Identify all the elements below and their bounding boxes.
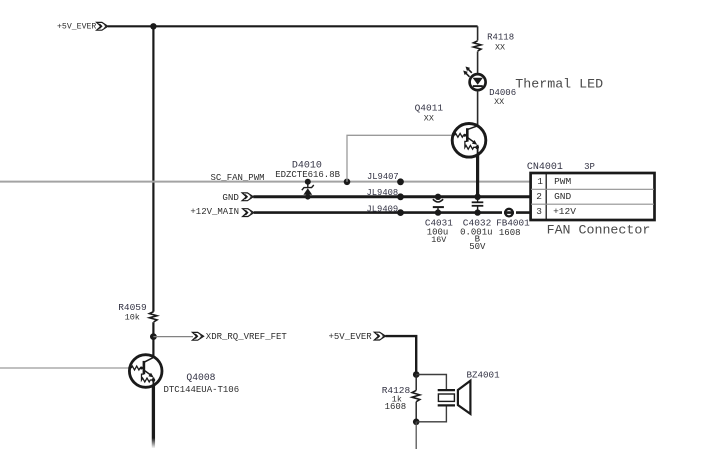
svg-text:1608: 1608 — [385, 402, 407, 412]
wire to buzzer bottom lead — [416, 405, 446, 421]
wire R4118 branch top — [477, 26, 479, 40]
transistor Q4011 — [452, 124, 486, 158]
svg-text:50V: 50V — [469, 242, 486, 252]
off-page connector arrow GND — [242, 193, 253, 201]
svg-text:1608: 1608 — [499, 228, 521, 238]
wire resistor to LED — [477, 51, 479, 74]
svg-text:CN4001: CN4001 — [527, 162, 563, 173]
wire GND net thick — [253, 195, 530, 198]
svg-text:XX: XX — [424, 113, 434, 123]
junction buzzer top — [413, 371, 420, 378]
off-page connector arrow (+5V_EVER bottom) — [374, 332, 385, 340]
off-page connector arrow XDR — [192, 332, 203, 340]
LED D4006 — [463, 67, 485, 91]
svg-text:16V: 16V — [431, 235, 446, 245]
wire resistor to junction — [152, 322, 154, 357]
junction JL9409 — [397, 209, 404, 216]
svg-text:+5V_EVER: +5V_EVER — [57, 23, 96, 32]
connector CN4001 box — [531, 173, 655, 220]
wire Q4011 emitter thick to GND net — [476, 155, 479, 197]
wire gray base line to Q4008 — [0, 367, 130, 369]
svg-text:R4059: R4059 — [118, 302, 147, 313]
wire +12V_MAIN net — [254, 211, 531, 214]
svg-text:+5V_EVER: +5V_EVER — [329, 332, 373, 342]
junction node XDR tap — [150, 333, 157, 340]
zener diode D4010 — [302, 179, 314, 200]
svg-text:JL9407: JL9407 — [367, 172, 399, 182]
svg-text:R4118: R4118 — [487, 33, 514, 43]
svg-text:DTC144EUA-T106: DTC144EUA-T106 — [164, 385, 240, 395]
svg-text:GND: GND — [222, 192, 239, 203]
svg-text:FAN Connector: FAN Connector — [547, 223, 651, 238]
wire +5V_EVER rail horizontal — [108, 25, 478, 27]
wire bottom to edge — [415, 422, 417, 449]
wire to buzzer top lead — [416, 375, 446, 391]
svg-text:JL9408: JL9408 — [367, 188, 399, 198]
wire to XDR_RQ_VREF_FET arrow — [153, 336, 193, 338]
wire vertical left rail to Q4008 — [152, 26, 154, 311]
junction JL9407 — [397, 178, 404, 185]
svg-text:PWM: PWM — [554, 176, 571, 187]
wire +5V_EVER to buzzer branch — [386, 336, 417, 374]
wire R4128 to bottom junction — [415, 402, 417, 422]
svg-text:EDZCTE616.8B: EDZCTE616.8B — [275, 170, 340, 180]
svg-text:BZ4001: BZ4001 — [467, 369, 501, 380]
wire Q4011 base (gray, up and right) — [347, 135, 452, 182]
svg-text:GND: GND — [554, 191, 571, 202]
wire LED to Q4011 collector — [477, 90, 479, 126]
buzzer BZ4001 — [438, 381, 471, 414]
svg-text:+12V_MAIN: +12V_MAIN — [190, 207, 239, 217]
svg-text:10k: 10k — [125, 313, 140, 323]
capacitor C4032 — [472, 194, 484, 216]
junction on SC_FAN_PWM for Q4011 base — [344, 179, 351, 186]
resistor R4059 — [149, 312, 157, 322]
svg-text:XX: XX — [494, 97, 504, 107]
svg-text:+12V: +12V — [553, 206, 576, 217]
ferrite bead FB4001 — [502, 209, 516, 217]
off-page connector arrow (+5V_EVER top) — [97, 22, 108, 30]
svg-text:Q4011: Q4011 — [415, 103, 444, 114]
transistor Q4008 — [129, 355, 162, 388]
svg-text:3P: 3P — [584, 162, 595, 172]
wire Q4008 emitter thick to bottom edge — [152, 385, 155, 448]
resistor R4128 — [412, 390, 420, 401]
svg-text:XDR_RQ_VREF_FET: XDR_RQ_VREF_FET — [206, 332, 288, 342]
svg-text:2: 2 — [536, 191, 542, 202]
svg-text:XX: XX — [495, 43, 505, 53]
junction JL9408 — [397, 193, 404, 200]
wire junction to R4128 — [415, 375, 417, 391]
wire SC_FAN_PWM gray net — [0, 181, 531, 183]
junction on +5V rail — [150, 23, 156, 29]
svg-text:JL9409: JL9409 — [367, 204, 399, 214]
resistor R4118 — [473, 41, 481, 51]
svg-text:3: 3 — [536, 206, 542, 217]
junction buzzer bottom — [413, 419, 420, 426]
svg-text:Thermal LED: Thermal LED — [515, 76, 603, 91]
off-page connector arrow +12V_MAIN — [243, 209, 254, 217]
svg-text:Q4008: Q4008 — [186, 372, 215, 383]
svg-text:SC_FAN_PWM: SC_FAN_PWM — [211, 173, 265, 183]
svg-text:1: 1 — [537, 176, 543, 187]
capacitor C4031 — [433, 194, 444, 216]
